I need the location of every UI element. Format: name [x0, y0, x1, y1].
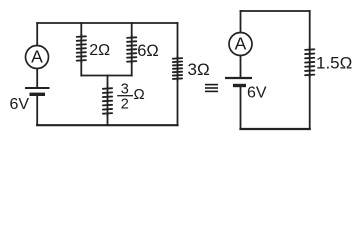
resistor R1 2Ω coil	[80, 34, 82, 63]
svg-text:Ω: Ω	[134, 86, 145, 103]
svg-text:A: A	[31, 47, 43, 67]
resistor R2 6Ω coil	[131, 35, 133, 64]
wire: parallel-box right lead (top)	[131, 23, 133, 37]
wire: ammeter to battery	[36, 69, 38, 88]
wire: battery to bottom rail (right)	[240, 87, 242, 129]
battery B1 6V (left): long positive plate	[25, 87, 50, 89]
battery B1 6V (left): short thick negative plate	[30, 93, 46, 96]
wire: parallel-box left lead (top)	[80, 23, 82, 36]
wire: ammeter to battery (right)	[240, 56, 242, 78]
ammeter A1 (left circuit)	[26, 46, 49, 69]
wire: right circuit bottom rail	[241, 128, 310, 130]
resistor R4 3Ω coil	[177, 56, 179, 82]
svg-text:6V: 6V	[10, 96, 30, 113]
wire: left circuit top rail	[37, 22, 177, 24]
wire: right branch upper lead (3Ω)	[177, 23, 179, 58]
wire: right branch upper lead (1.5Ω)	[309, 11, 311, 49]
wire: right branch lower lead (1.5Ω)	[309, 76, 311, 130]
wire: parallel-box right lead (bottom)	[131, 62, 133, 76]
ammeter A2 (right circuit)	[229, 33, 252, 56]
wire: parallel-box bottom edge	[81, 75, 131, 77]
svg-text:2: 2	[121, 97, 129, 113]
label: 3/2 Ω fraction (R3 value)	[117, 82, 145, 113]
wire: middle branch upper lead	[107, 76, 109, 88]
wire: left circuit bottom rail	[37, 124, 177, 126]
equivalence symbol ≡	[205, 85, 218, 92]
battery B2 6V (right): long positive plate	[225, 77, 252, 79]
wire: left branch, top corner to ammeter	[36, 23, 38, 46]
wire: battery to bottom rail	[36, 96, 38, 126]
svg-text:2Ω: 2Ω	[89, 42, 110, 59]
wire: right circuit left branch, corner to ammeter	[240, 11, 242, 33]
wire: right circuit top rail	[241, 10, 310, 12]
wire: parallel-box left lead (bottom)	[80, 61, 82, 76]
svg-text:3Ω: 3Ω	[188, 60, 210, 79]
resistor R3 3/2Ω coil	[107, 86, 109, 116]
wire: right branch lower lead (3Ω)	[177, 79, 179, 125]
resistor R5 1.5Ω coil	[309, 47, 311, 78]
battery B2 6V (right): short thick negative plate	[233, 84, 246, 87]
svg-text:6Ω: 6Ω	[137, 42, 159, 60]
wire: middle branch lower lead	[107, 114, 109, 125]
svg-text:A: A	[235, 34, 247, 54]
svg-text:1.5Ω: 1.5Ω	[316, 54, 352, 73]
svg-text:6V: 6V	[247, 85, 267, 102]
